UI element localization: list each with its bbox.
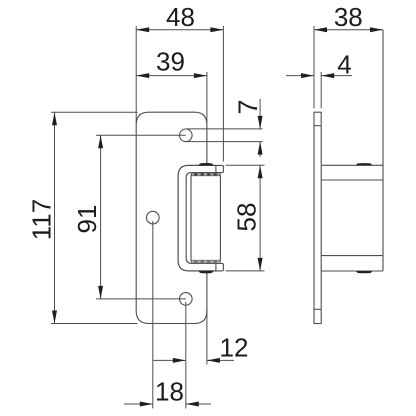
dim 18 tails [124,403,153,405]
svg-text:12: 12 [220,333,249,363]
arrow 38 right [370,27,383,32]
side plate tick bottom [314,308,321,310]
latch end cap bottom [216,263,224,271]
arrow 58 top [258,165,263,178]
arrow 18 left [140,402,153,407]
arrow 18 right [186,402,199,407]
arrow dia7 bottom [258,142,263,155]
svg-text:39: 39 [156,47,185,77]
roller knurled band bottom [192,260,220,263]
arrow dia7 top [258,116,263,129]
arrow 12 right [207,358,220,363]
side body bar bottom [321,270,383,272]
side view plate [314,30,383,324]
arrow 48 left [136,27,149,32]
arrow 48 right [210,27,223,32]
svg-text:4: 4 [337,50,351,80]
arrow 4 right [321,73,334,78]
ext line 117 bottom [51,323,138,325]
roller body [191,173,220,263]
dim line 38 [314,29,383,31]
side plate tick top [314,125,321,127]
ext 18 middle hole [152,221,154,409]
hole middle [147,211,160,224]
arrow 39 right [194,73,207,78]
svg-text:117: 117 [27,199,57,240]
latch end cap top [216,165,224,172]
ext line 4 right [320,72,322,108]
latch bracket inner [186,173,216,264]
side body bar bottom inner [321,255,383,257]
arrow 91 bottom [98,286,103,299]
ext line 91 top (hole centre line) [96,134,186,136]
arrow 38 left [314,27,327,32]
arrow 12 left [173,358,186,363]
dia7 ext top [186,128,263,130]
dim line 48 [136,29,223,31]
ext line 48 right [222,26,224,162]
arrow 39 left [136,73,149,78]
ext line 39 right [206,72,208,123]
pivot pin lens top [199,163,214,165]
svg-text:18: 18 [155,377,184,407]
hole top [180,129,193,142]
plate front view outline (right edge hidden behind latch) [136,112,207,323]
dim line 91 [100,135,102,299]
arrow 117 bottom [52,311,57,324]
dim line 4 tails [286,75,314,77]
arrow 58 bottom [258,258,263,271]
ext line 48/39 left [135,26,137,123]
svg-text:91: 91 [72,205,102,234]
svg-text:7: 7 [233,99,263,114]
pivot pin lens bottom [199,271,214,273]
roller knurled band top [192,173,220,176]
arrow 117 top [52,112,57,125]
latch bracket outer [178,165,216,271]
side body right edge [382,30,384,271]
ext line 38/4 left [313,26,315,108]
side pin lens top [356,163,373,165]
dia7 ext bottom [186,141,263,143]
side pin lens bottom [356,271,373,273]
ext 12 plate edge [206,308,208,365]
svg-text:58: 58 [232,203,262,232]
dim line 117 [54,112,56,323]
side body bar top [321,164,383,166]
arrow 4 left [301,73,314,78]
dia7 arrow stems [259,99,261,129]
ext 58 top [226,164,265,166]
side body bar top inner [321,179,383,181]
ext 58 bottom [226,270,265,272]
hole bottom [180,293,193,306]
dim line 39 [136,75,207,77]
dim line 58 [259,165,261,271]
ext 12 hole centre [185,302,187,409]
arrow 91 top [98,135,103,148]
ext line 117 top [51,111,138,113]
dim 12 tails [154,359,186,361]
svg-text:48: 48 [166,2,195,32]
ext line 91 bottom (hole centre line) [96,298,186,300]
svg-text:38: 38 [334,2,363,32]
